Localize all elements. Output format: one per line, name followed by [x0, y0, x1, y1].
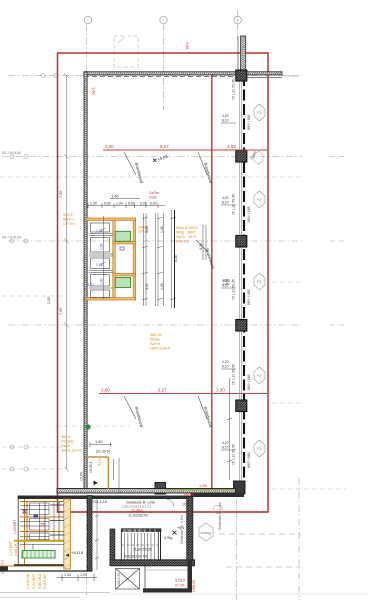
- dim chain above rooms: [88, 199, 165, 209]
- left margin axis marker row y=241: [10, 239, 28, 243]
- left margin axis marker row y=156.5: [10, 155, 28, 159]
- svg-text:+5,1: +5,1: [177, 526, 184, 530]
- svg-text:900,5: 900,5: [61, 435, 71, 439]
- dim chain right lower bay: [227, 378, 232, 480]
- left hatched wall of stair room: [110, 529, 115, 563]
- svg-text:4,21: 4,21: [87, 283, 94, 287]
- svg-text:Geländer h=1,0m: Geländer h=1,0m: [218, 502, 222, 530]
- svg-text:6,27: 6,27: [160, 144, 169, 149]
- svg-text:+5,115: +5,115: [71, 550, 84, 555]
- svg-text:4,20: 4,20: [222, 441, 229, 445]
- svg-text:1,23 BRT: 1,23 BRT: [32, 573, 36, 589]
- axis vertical 2 x=163.5: [163, 24, 165, 110]
- bottom wall thin: [0, 570, 92, 572]
- svg-text:1,04: 1,04: [80, 573, 87, 577]
- vertical dim chains right of rooms: [142, 210, 176, 308]
- svg-text:4,38: 4,38: [199, 243, 203, 250]
- inner black partitions: [89, 223, 113, 298]
- axis stub left y=426: [56, 425, 130, 427]
- svg-text:11,92/28,50: 11,92/28,50: [128, 514, 148, 518]
- svg-text:8,10: 8,10: [222, 201, 229, 205]
- column bottom right: [234, 481, 246, 494]
- orange partition bottom-left: [88, 457, 114, 489]
- axis bubble 3: [234, 16, 241, 23]
- left wall: [84, 72, 87, 493]
- svg-text:11,9Ba: 11,9Ba: [131, 509, 144, 513]
- svg-text:05 7-8+5,54: 05 7-8+5,54: [2, 151, 21, 155]
- wall return bottom-left corner: [0, 567, 8, 572]
- column bottom mid: [155, 483, 166, 495]
- svg-text:Kingda: Kingda: [61, 440, 74, 444]
- svg-text:UF/Tm: UF/Tm: [63, 222, 75, 226]
- svg-text:900,5: 900,5: [188, 226, 198, 230]
- elevator shaft X: [116, 569, 140, 590]
- svg-text:11,90,50,50: 11,90,50,50: [133, 548, 152, 552]
- dim chain x=203: [203, 225, 206, 260]
- left margin axis marker row y=75.5: [41, 74, 58, 78]
- level mark hall top: [153, 153, 169, 162]
- svg-text:890* I 685: 890* I 685: [247, 114, 251, 130]
- svg-text:F3: F3: [257, 374, 261, 378]
- orange rotated texts bottom left: [9, 540, 47, 589]
- olive rail line: [165, 489, 234, 491]
- red dimension line lower: [99, 393, 268, 395]
- svg-text:1,60: 1,60: [92, 87, 97, 96]
- svg-text:Whg: Whg: [176, 231, 184, 235]
- svg-text:2,00: 2,00: [47, 297, 51, 304]
- spuehl hexagon: [254, 151, 263, 165]
- dims near partition: [90, 442, 112, 447]
- svg-text:4,30: 4,30: [145, 226, 149, 233]
- svg-text:890* I 685: 890* I 685: [247, 452, 251, 468]
- svg-text:BRT h: BRT h: [63, 218, 74, 222]
- svg-text:0,85 UKD: 0,85 UKD: [38, 573, 42, 589]
- dashed line y=567 right: [226, 566, 301, 568]
- svg-text:BRT: BRT: [188, 231, 196, 235]
- axis stub left y=469: [2, 468, 66, 470]
- svg-text:05 7-8+5,54: 05 7-8+5,54: [2, 236, 21, 240]
- door arc on top wall: [167, 499, 175, 507]
- svg-text:KL 90A UZ 30 1 V: KL 90A UZ 30 1 V: [123, 528, 145, 532]
- red inner vertical line: [211, 73, 213, 490]
- svg-text:2,345 OK: 2,345 OK: [26, 573, 30, 589]
- svg-text:8,10: 8,10: [222, 446, 229, 450]
- short partition stubs right of stalls: [50, 505, 64, 535]
- svg-text:05 1,20 55,45: 05 1,20 55,45: [232, 364, 236, 385]
- svg-text:49A 2,35: 49A 2,35: [117, 573, 121, 586]
- svg-text:F3: F3: [257, 111, 261, 115]
- svg-text:5,115 OK: 5,115 OK: [43, 573, 47, 589]
- faint bottom edge: [0, 592, 110, 594]
- svg-text:Hasd: Hasd: [61, 444, 70, 448]
- svg-text:05 1,20 55,45: 05 1,20 55,45: [232, 279, 236, 300]
- bottom hatched band under stair: [110, 560, 195, 566]
- svg-text:1,23 BRT: 1,23 BRT: [9, 540, 13, 556]
- svg-text:W04,5: W04,5: [176, 226, 187, 230]
- top wall: [84, 72, 299, 78]
- faint wide bottom line: [110, 593, 368, 595]
- svg-text:H6B 05: H6B 05: [192, 580, 196, 592]
- svg-text:1,88: 1,88: [96, 263, 103, 267]
- axis stub right y=403: [272, 402, 302, 404]
- svg-text:890* I 685: 890* I 685: [247, 374, 251, 390]
- svg-text:2,88: 2,88: [185, 42, 189, 49]
- red line bottom: [57, 511, 268, 513]
- level mark x: [173, 531, 177, 535]
- dimension line bottom: [57, 574, 97, 581]
- svg-text:4,20: 4,20: [222, 360, 229, 364]
- hall bottom wall: [57, 489, 236, 494]
- dashed line y=534 right: [219, 533, 301, 535]
- brandwand leader upper 1: [124, 152, 145, 184]
- svg-text:SUFb,1: SUFb,1: [176, 240, 189, 244]
- svg-text:F3: F3: [257, 280, 261, 284]
- svg-text:Du8: Du8: [149, 195, 157, 200]
- green dot: [85, 424, 90, 429]
- orange text block right of rooms: [176, 226, 198, 244]
- svg-text:1,85: 1,85: [199, 483, 208, 488]
- yellow hatched wall: [64, 499, 71, 569]
- axis bubble 2: [160, 16, 167, 23]
- orange text block hall mid-left: [63, 213, 75, 226]
- svg-text:05 1,20 55,45: 05 1,20 55,45: [232, 444, 236, 465]
- svg-text:15,7H: 15,7H: [80, 471, 84, 481]
- svg-text:7,00: 7,00: [59, 308, 63, 315]
- svg-text:SaFb,129+0: SaFb,129+0: [61, 449, 82, 453]
- svg-text:05 1,20 55,45: 05 1,20 55,45: [232, 194, 236, 215]
- svg-text:7,00: 7,00: [59, 191, 63, 198]
- extra stall partitions: [20, 502, 64, 550]
- building top wall: [18, 496, 191, 500]
- axis stub right y=489: [272, 488, 346, 490]
- svg-text:0,85 UK: 0,85 UK: [14, 542, 18, 556]
- svg-text:Lebd,134+0: Lebd,134+0: [150, 347, 170, 351]
- svg-text:1,00: 1,00: [100, 278, 104, 285]
- right wall of bottom building: [187, 497, 193, 560]
- axis bubble 1: [84, 16, 91, 23]
- svg-text:F3: F3: [257, 198, 261, 202]
- svg-text:5,78,9: 5,78,9: [175, 579, 185, 583]
- svg-text:6,27: 6,27: [158, 388, 167, 393]
- brandwand leader lower 2: [198, 396, 214, 428]
- svg-text:4,20: 4,20: [222, 196, 229, 200]
- svg-text:3,00: 3,00: [216, 388, 225, 393]
- svg-text:34+0: 34+0: [188, 235, 197, 239]
- red dimension line upper: [103, 149, 268, 151]
- right wall of stair: [160, 529, 162, 563]
- svg-text:890* I 685: 890* I 685: [247, 289, 251, 305]
- bay dim text pairs: [222, 114, 229, 450]
- green fixture upper: [115, 231, 130, 241]
- svg-text:07,35: 07,35: [175, 584, 184, 588]
- svg-text:F3: F3: [257, 447, 261, 451]
- axis vertical 1 x=86.5: [86, 24, 88, 595]
- axis vertical 4 x=299 bottom: [298, 478, 300, 600]
- columns on right wall: [236, 70, 247, 412]
- orange walls: [86, 218, 136, 300]
- secondary line y=177: [0, 176, 302, 178]
- svg-text:SaTa: SaTa: [176, 235, 186, 239]
- orange text block hall lower: [150, 333, 170, 351]
- svg-text:1,00: 1,00: [100, 243, 104, 250]
- svg-text:(21,36-5): (21,36-5): [96, 450, 110, 454]
- wall extension to column: [191, 494, 244, 498]
- black hatched wall mid: [87, 496, 92, 572]
- blue dim vertical in rooms: [102, 216, 106, 299]
- orange text block left lower: [61, 435, 82, 453]
- svg-text:1,26: 1,26: [160, 226, 164, 233]
- axis stub right y=282: [272, 281, 302, 283]
- left edge wall: [17, 496, 19, 567]
- dashed canopy rectangle top: [114, 36, 138, 67]
- svg-text:900,5: 900,5: [63, 213, 73, 217]
- svg-text:8x16,5/2,64 Trit: 8x16,5/2,64 Trit: [124, 555, 147, 559]
- axis line horizontal A y=75.5: [8, 75, 302, 77]
- svg-text:3,00: 3,00: [105, 144, 114, 149]
- outside dimension line left x=66.5: [64, 73, 69, 472]
- svg-text:1,40: 1,40: [95, 440, 102, 444]
- svg-text:6,60: 6,60: [150, 201, 157, 205]
- svg-text:4,20: 4,20: [222, 114, 229, 118]
- green block: [22, 550, 55, 558]
- thin dim vertical x=119: [118, 458, 120, 492]
- svg-text:3,00: 3,00: [101, 388, 110, 393]
- brandwand leader upper 2: [198, 152, 214, 184]
- blue mark: [34, 515, 39, 518]
- level arrow near wall: [94, 481, 99, 486]
- bay annotation texts along right wall: [232, 79, 252, 468]
- short axis stub y=296: [2, 295, 66, 297]
- svg-text:6,60: 6,60: [104, 201, 111, 205]
- right wall band: [240, 75, 245, 488]
- axis line horizontal C y=241: [8, 240, 302, 242]
- svg-text:890* I 685: 890* I 685: [247, 206, 251, 222]
- svg-text:1,40: 1,40: [111, 194, 120, 199]
- svg-text:4,30: 4,30: [145, 283, 149, 290]
- orange partitions: [0, 499, 64, 566]
- svg-text:1,30: 1,30: [90, 201, 97, 205]
- F3 window symbols: [254, 104, 265, 457]
- svg-text:1,88: 1,88: [96, 229, 103, 233]
- svg-text:1,34: 1,34: [116, 201, 123, 205]
- brandwand leader mid: [196, 240, 216, 270]
- brandwand leader lower 1: [124, 396, 145, 428]
- hexagon aufzug: [199, 523, 213, 541]
- small circle on red line: [214, 505, 223, 514]
- stall rows: [30, 502, 55, 541]
- dim line x=97 bottom building: [95, 499, 99, 570]
- svg-text:SaTm: SaTm: [150, 342, 160, 346]
- svg-text:1,23 BRT: 1,23 BRT: [13, 520, 17, 534]
- left margin axis marker row y=447: [10, 445, 28, 471]
- svg-text:1,50: 1,50: [223, 282, 230, 286]
- green fixture lower: [115, 278, 130, 288]
- svg-text:19,35,4: 19,35,4: [89, 462, 93, 473]
- axis vertical 3 bottom: [236, 499, 238, 600]
- svg-text:6,05: 6,05: [140, 201, 147, 205]
- svg-text:1,26: 1,26: [160, 283, 164, 290]
- svg-text:4,00: 4,00: [227, 144, 236, 149]
- red boundary rectangle: [58, 53, 269, 512]
- room bottom right walls: [143, 560, 192, 593]
- axis stub left y=447: [2, 446, 66, 448]
- svg-text:8,10: 8,10: [222, 119, 229, 123]
- red mark small: [41, 524, 44, 527]
- staircase: [121, 528, 161, 560]
- svg-text:4 Stg: 4 Stg: [164, 536, 172, 540]
- svg-text:H6 08: H6 08: [184, 493, 194, 497]
- svg-text:1,04: 1,04: [64, 573, 71, 577]
- axis vertical 3 x=237.6 top stub: [237, 10, 239, 40]
- purple mark: [23, 510, 27, 514]
- svg-text:6,60: 6,60: [128, 201, 135, 205]
- svg-text:05 1,20 55,45: 05 1,20 55,45: [232, 79, 236, 100]
- svg-text:4,13: 4,13: [98, 459, 102, 466]
- svg-text:Aufzug: Aufzug: [201, 531, 212, 535]
- axis line horizontal B y=156.5: [2, 156, 302, 158]
- wall stub above top wall: [238, 36, 246, 71]
- svg-text:4,38: 4,38: [174, 255, 178, 262]
- svg-text:8,10: 8,10: [222, 365, 229, 369]
- svg-text:Whse: Whse: [150, 338, 160, 342]
- svg-text:9704 2,18: 9704 2,18: [90, 500, 107, 504]
- axis line horizontal D y=325: [8, 324, 302, 326]
- svg-text:WD 02: WD 02: [150, 333, 162, 337]
